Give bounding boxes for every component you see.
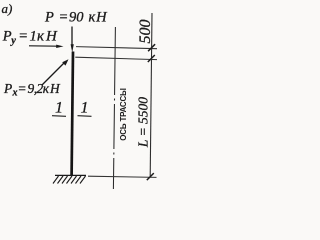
svg-text:Рх=9,2кН: Рх=9,2кН xyxy=(3,81,61,99)
svg-text:500: 500 xyxy=(137,20,154,44)
svg-text:а): а) xyxy=(2,1,13,16)
svg-text:Ру=1кН: Ру=1кН xyxy=(2,29,59,47)
svg-text:1: 1 xyxy=(55,99,63,116)
svg-text:Р=90кН: Р=90кН xyxy=(44,10,108,26)
svg-text:ОСЬ ТРАССЫ: ОСЬ ТРАССЫ xyxy=(119,88,128,141)
svg-text:1: 1 xyxy=(81,99,89,116)
svg-text:L = 5500: L = 5500 xyxy=(136,97,151,148)
